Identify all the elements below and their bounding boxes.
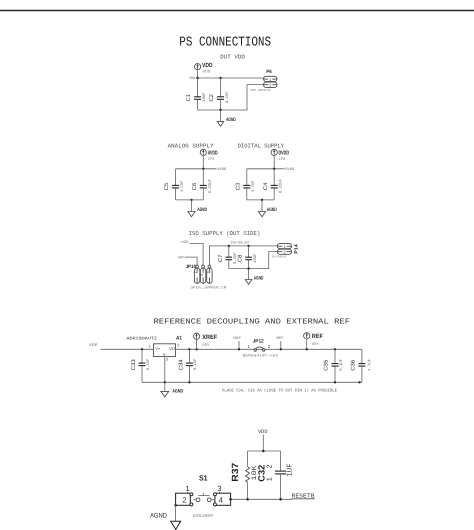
capacitor C1 bbox=[186, 78, 207, 110]
svg-text:VDD: VDD bbox=[258, 429, 268, 435]
svg-text:DUT VDD: DUT VDD bbox=[220, 54, 245, 61]
wire +VDD to JP15 pin 2 bbox=[190, 243, 204, 265]
sheet top border bbox=[0, 10, 474, 12]
junction bbox=[334, 348, 336, 350]
junction bbox=[219, 77, 221, 79]
svg-text:ANALOG SUPPLY: ANALOG SUPPLY bbox=[168, 142, 215, 149]
svg-text:V+: V+ bbox=[155, 346, 161, 351]
svg-text:2: 2 bbox=[283, 249, 286, 254]
svg-text:0.22UF: 0.22UF bbox=[279, 179, 284, 194]
svg-text:C4: C4 bbox=[263, 183, 269, 191]
svg-text:VDD: VDD bbox=[89, 343, 98, 348]
svg-text:3PIN_JUMPER_CM: 3PIN_JUMPER_CM bbox=[190, 285, 226, 290]
junction bbox=[358, 381, 360, 383]
svg-text:+VDD: +VDD bbox=[180, 240, 189, 245]
net stub XREF bbox=[233, 336, 241, 350]
capacitor C34 bbox=[179, 349, 199, 382]
svg-text:AVDD: AVDD bbox=[208, 151, 218, 157]
wire AVDD to rail bbox=[202, 155, 204, 169]
svg-text:BER69418T-C62: BER69418T-C62 bbox=[243, 354, 279, 359]
svg-text:C33: C33 bbox=[131, 359, 137, 370]
svg-text:VDD: VDD bbox=[189, 76, 195, 81]
junction bbox=[229, 498, 232, 501]
junction bbox=[247, 245, 249, 247]
svg-text:XREF: XREF bbox=[202, 334, 217, 341]
net stub REF bbox=[277, 336, 284, 350]
svg-text:10UF: 10UF bbox=[253, 253, 258, 263]
svg-text:AGND: AGND bbox=[197, 207, 207, 213]
svg-text:C3: C3 bbox=[235, 183, 241, 191]
junction bbox=[141, 348, 143, 350]
capacitor C4 bbox=[263, 169, 284, 200]
svg-text:2: 2 bbox=[266, 465, 273, 469]
svg-text:DVDD: DVDD bbox=[285, 167, 294, 172]
wire analog bottom rail bbox=[176, 199, 204, 201]
svg-text:0.1UF: 0.1UF bbox=[225, 91, 230, 103]
svg-text:AGND: AGND bbox=[150, 513, 167, 520]
power symbol REF bbox=[304, 333, 323, 351]
svg-text:M20-9990245: M20-9990245 bbox=[272, 256, 286, 259]
svg-text:0.1UF: 0.1UF bbox=[339, 358, 344, 370]
junction bbox=[228, 245, 230, 247]
connector P6 bbox=[251, 69, 278, 92]
wire DVDD to rail bbox=[273, 155, 275, 169]
wire reset bottom rail bbox=[231, 498, 292, 500]
capacitor C7 bbox=[218, 246, 238, 269]
svg-text:C36: C36 bbox=[351, 360, 357, 371]
junction bbox=[188, 381, 190, 383]
svg-text:AGND: AGND bbox=[267, 207, 277, 213]
svg-text:AGND: AGND bbox=[226, 117, 236, 123]
svg-text:1: 1 bbox=[267, 477, 274, 481]
switch S1 bbox=[176, 474, 231, 519]
svg-text:A1: A1 bbox=[176, 335, 182, 341]
svg-text:B3S1000: B3S1000 bbox=[193, 514, 213, 519]
svg-text:0.1UF: 0.1UF bbox=[146, 358, 151, 370]
junction bbox=[188, 348, 190, 350]
wire DUT VDD rail bbox=[196, 77, 264, 79]
svg-text:S1: S1 bbox=[199, 474, 208, 483]
svg-text:4.7UF: 4.7UF bbox=[180, 180, 185, 192]
junction bbox=[164, 381, 166, 383]
capacitor C35 bbox=[324, 349, 345, 382]
voltage reference A1 bbox=[127, 335, 183, 361]
power symbol VDD bbox=[195, 62, 214, 74]
svg-text:C5: C5 bbox=[164, 183, 170, 191]
junction bbox=[279, 498, 282, 501]
svg-text:PS CONNECTIONS: PS CONNECTIONS bbox=[179, 35, 271, 50]
junction bbox=[202, 168, 204, 170]
junction bbox=[247, 267, 249, 269]
jumper JP15 bbox=[186, 264, 227, 290]
junction bbox=[195, 348, 197, 350]
svg-text:1: 1 bbox=[283, 244, 286, 249]
ground AGND (ref) bbox=[161, 382, 184, 397]
wire DUT bottom rail bbox=[198, 85, 264, 110]
svg-text:GRY: GRY bbox=[202, 343, 210, 348]
svg-text:REF: REF bbox=[312, 333, 323, 340]
svg-text:4: 4 bbox=[219, 496, 223, 505]
ground AGND (analog) bbox=[188, 200, 207, 217]
capacitor C36 bbox=[351, 349, 373, 382]
svg-text:DIGITAL SUPPLY: DIGITAL SUPPLY bbox=[238, 142, 285, 149]
svg-text:2: 2 bbox=[268, 344, 271, 349]
svg-text:C32: C32 bbox=[257, 465, 267, 482]
capacitor C8 bbox=[238, 246, 258, 269]
svg-text:REFERENCE DECOUPLING AND EXTER: REFERENCE DECOUPLING AND EXTERNAL REF bbox=[154, 318, 351, 327]
svg-text:10UF: 10UF bbox=[202, 92, 207, 102]
capacitor C33 bbox=[131, 349, 151, 382]
svg-text:ISO SUPPLY (DUT SIDE): ISO SUPPLY (DUT SIDE) bbox=[189, 230, 261, 237]
capacitor C6 bbox=[192, 169, 213, 200]
svg-text:1: 1 bbox=[248, 344, 251, 349]
capacitor C32 bbox=[257, 451, 295, 499]
svg-text:JP12: JP12 bbox=[253, 339, 264, 345]
svg-text:4.7UF: 4.7UF bbox=[368, 358, 373, 370]
svg-text:ADR280AUTZ: ADR280AUTZ bbox=[127, 336, 158, 341]
ground AGND (DUT) bbox=[217, 110, 236, 126]
svg-text:1: 1 bbox=[194, 272, 198, 274]
svg-text:C2: C2 bbox=[209, 94, 215, 102]
svg-text:AGND: AGND bbox=[254, 275, 264, 281]
ground AGND (switch) bbox=[150, 505, 181, 529]
wire ISO bottom rail bbox=[229, 252, 278, 269]
wire ISO rail bbox=[209, 246, 277, 265]
junction bbox=[190, 199, 192, 201]
wire VDD drop bbox=[262, 435, 264, 452]
ground AGND (digital) bbox=[258, 200, 276, 217]
svg-text:V-: V- bbox=[163, 352, 167, 357]
svg-text:C8: C8 bbox=[238, 255, 244, 263]
wire analog rail bbox=[176, 168, 217, 170]
power symbol XREF bbox=[194, 333, 218, 349]
svg-text:2: 2 bbox=[199, 273, 204, 276]
wire VDD symbol to rail bbox=[197, 70, 199, 79]
svg-text:1UF: 1UF bbox=[287, 463, 295, 477]
svg-text:VDD: VDD bbox=[202, 69, 211, 74]
svg-text:AGND: AGND bbox=[172, 389, 183, 395]
svg-text:DVDD: DVDD bbox=[279, 151, 290, 157]
capacitor C3 bbox=[235, 169, 256, 200]
resistor R37 bbox=[230, 451, 259, 499]
svg-text:C6: C6 bbox=[192, 183, 198, 191]
junction bbox=[219, 109, 221, 111]
svg-text:P14: P14 bbox=[293, 244, 298, 254]
svg-text:C1: C1 bbox=[186, 94, 192, 102]
junction bbox=[174, 504, 177, 507]
svg-text:VDD: VDD bbox=[202, 62, 213, 69]
junction bbox=[261, 199, 263, 201]
svg-text:VO: VO bbox=[169, 346, 175, 351]
svg-text:3: 3 bbox=[166, 357, 168, 361]
power symbol DVDD bbox=[271, 149, 289, 162]
svg-text:ISO_VDD_DUT: ISO_VDD_DUT bbox=[231, 240, 251, 245]
svg-text:2: 2 bbox=[177, 343, 179, 347]
wire digital rail bbox=[247, 168, 285, 170]
junction bbox=[334, 381, 336, 383]
wire top bar bbox=[248, 450, 281, 452]
junction bbox=[246, 498, 249, 501]
svg-text:C35: C35 bbox=[324, 360, 330, 371]
wire ref bottom rail bbox=[142, 381, 362, 383]
svg-text:2: 2 bbox=[269, 83, 272, 88]
svg-text:M20-9990245: M20-9990245 bbox=[251, 88, 271, 92]
svg-text:1: 1 bbox=[149, 345, 151, 349]
svg-text:2: 2 bbox=[182, 496, 186, 505]
svg-text:GRY: GRY bbox=[312, 342, 320, 347]
jumper JP12 bbox=[243, 339, 279, 359]
connector P14 bbox=[272, 244, 298, 259]
wire digital bottom rail bbox=[247, 199, 274, 201]
junction bbox=[273, 168, 275, 170]
ground AGND (ISO) bbox=[245, 269, 263, 285]
svg-text:XREF: XREF bbox=[233, 336, 241, 341]
capacitor C2 bbox=[209, 78, 230, 110]
capacitor C5 bbox=[164, 169, 185, 200]
svg-text:P6: P6 bbox=[266, 69, 272, 75]
junction bbox=[196, 77, 198, 79]
svg-text:0.22UF: 0.22UF bbox=[208, 179, 213, 194]
svg-text:R37: R37 bbox=[230, 463, 240, 482]
wire A1 output rail bbox=[176, 348, 362, 350]
power symbol AVDD bbox=[200, 149, 217, 162]
svg-text:4.7UF: 4.7UF bbox=[251, 180, 256, 192]
svg-text:0.1UF: 0.1UF bbox=[193, 358, 198, 370]
svg-text:3: 3 bbox=[206, 272, 210, 274]
junction bbox=[262, 450, 265, 453]
wire VBT to JP15 pin 1 bbox=[185, 257, 198, 265]
wire ref input rail bbox=[101, 348, 154, 350]
svg-text:C7: C7 bbox=[218, 255, 224, 263]
svg-text:CP3: CP3 bbox=[208, 157, 215, 162]
svg-text:VBT: VBT bbox=[178, 255, 185, 260]
svg-text:CP8: CP8 bbox=[279, 157, 286, 162]
svg-text:1: 1 bbox=[269, 77, 272, 82]
svg-text:REF: REF bbox=[277, 336, 284, 341]
svg-text:AVDD: AVDD bbox=[217, 167, 226, 172]
svg-text:C34: C34 bbox=[179, 359, 185, 370]
wire A1 gnd pin bbox=[164, 357, 166, 383]
svg-text:PLACE C34, C36 AS CLOSE TO DUT: PLACE C34, C36 AS CLOSE TO DUT PIN 1) AS… bbox=[222, 387, 337, 393]
